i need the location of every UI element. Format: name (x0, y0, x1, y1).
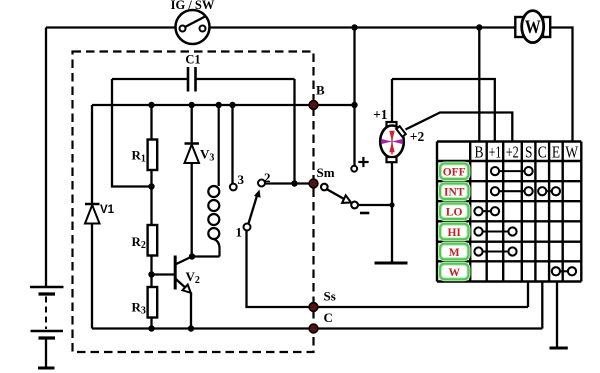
svg-text:+2: +2 (506, 143, 519, 162)
junction dot bus at contact3 (229, 102, 235, 108)
relay coil (208, 105, 219, 257)
svg-text:W: W (525, 16, 541, 38)
svg-text:W: W (448, 267, 460, 279)
junction dot bus at V3 (189, 102, 195, 108)
junction dot emitter bottom (188, 325, 194, 331)
terminal B dot (309, 101, 318, 110)
svg-text:Ss: Ss (324, 289, 336, 304)
motor cross red vertical arrow (389, 131, 394, 155)
terminal Ss dot (309, 303, 318, 312)
svg-text:E: E (552, 143, 560, 162)
row pill M (440, 244, 469, 259)
diode V1 (85, 105, 100, 329)
wire washer to W column (550, 28, 572, 142)
junction dot C1-Sm (291, 180, 297, 186)
contact 2 (258, 180, 265, 187)
label + (358, 157, 368, 167)
junction dot below R1 (148, 183, 154, 189)
node bus B horizontal (92, 104, 355, 106)
junction dot bus right (351, 102, 357, 108)
svg-text:+1: +1 (489, 143, 502, 162)
junction minus at motor vertical (389, 202, 394, 207)
motor ground bar (375, 262, 408, 265)
svg-text:+1: +1 (373, 107, 388, 122)
contact + circle (351, 166, 357, 172)
contacts W row (552, 267, 576, 275)
Sm moving contact pivot circle (321, 184, 328, 191)
contact minus circle (351, 202, 358, 209)
svg-text:C1: C1 (185, 53, 200, 67)
contacts LO row (474, 207, 499, 215)
junction dot R3 bottom (148, 325, 154, 331)
wire top bus middle segment (210, 26, 516, 28)
capacitor C1 (112, 67, 295, 92)
svg-text:S: S (525, 143, 533, 162)
svg-text:C: C (538, 143, 547, 162)
svg-text:B: B (316, 83, 325, 98)
diode V3 (185, 105, 200, 257)
wire contact2 to Sm (265, 182, 314, 184)
svg-text:3: 3 (238, 172, 245, 187)
resistor R1 (148, 105, 158, 225)
wire C1 left drop (112, 79, 152, 187)
wire top bus left segment (46, 26, 176, 28)
wire C column up (541, 282, 543, 329)
bottom bus wire to C (92, 327, 542, 329)
svg-text:W: W (565, 143, 578, 162)
svg-text:C: C (324, 310, 333, 325)
wire S column up (527, 282, 529, 308)
battery (30, 287, 64, 368)
junction dot bus at coil (216, 102, 222, 108)
contact 3 (230, 105, 237, 190)
wire contact1 down to Ss (247, 231, 529, 308)
wiper motor M (380, 79, 404, 263)
wire motor +2 to table (406, 113, 513, 142)
svg-text:IG / SW: IG / SW (171, 0, 215, 12)
svg-text:V1: V1 (100, 204, 115, 216)
wire B column top (478, 28, 480, 142)
row pill OFF (440, 164, 469, 180)
Sm switch arm arrow (327, 190, 351, 203)
svg-text:OFF: OFF (443, 167, 466, 179)
wire C1 right drop to Sm line (293, 79, 295, 184)
motor cross magenta horizontal arrow (381, 139, 403, 144)
contacts M row (474, 247, 516, 255)
svg-text:INT: INT (444, 187, 465, 199)
contacts HI row (474, 227, 516, 235)
junction dot bus at R1 (148, 102, 154, 108)
resistor R3 (148, 287, 158, 329)
row pill HI (440, 224, 469, 240)
junction dot collector (189, 253, 195, 259)
svg-text:1: 1 (236, 225, 243, 240)
wire coil to collector (192, 255, 220, 257)
wire battery left drop (45, 28, 47, 288)
svg-text:+2: +2 (410, 129, 425, 144)
connector table grid (437, 142, 581, 282)
svg-text:HI: HI (447, 227, 461, 239)
label minus (360, 212, 369, 215)
ground bar E (550, 347, 568, 350)
junction dot top-right (476, 24, 482, 30)
wire motor +1 to table (392, 79, 495, 141)
svg-text:LO: LO (446, 207, 463, 219)
contacts INT row (491, 187, 560, 195)
junction dot base (148, 271, 154, 277)
switch arm 1 to 2 (249, 190, 261, 224)
terminal Sm dot (309, 179, 318, 188)
wire base (152, 273, 175, 275)
contact 1 (244, 224, 251, 231)
motor +2 brush contact (396, 126, 406, 137)
svg-text:Sm: Sm (317, 165, 335, 180)
wire E column to ground (556, 282, 558, 349)
svg-text:M: M (449, 247, 460, 259)
junction dot top-left (351, 24, 357, 30)
washer motor W (515, 11, 550, 43)
svg-text:B: B (474, 143, 483, 162)
table header labels (474, 143, 578, 162)
switch IG/SW (176, 10, 210, 44)
row pill W (440, 264, 469, 280)
relay box dashed border (73, 52, 314, 353)
row pill LO (440, 204, 469, 220)
resistor R2 (148, 225, 158, 287)
contacts OFF row (491, 167, 533, 175)
transistor V2 (175, 256, 192, 329)
wire minus to motor ground (358, 204, 392, 206)
wire from top bus down to + contact (353, 28, 355, 166)
terminal C dot (309, 324, 318, 333)
row pill INT (440, 184, 469, 200)
